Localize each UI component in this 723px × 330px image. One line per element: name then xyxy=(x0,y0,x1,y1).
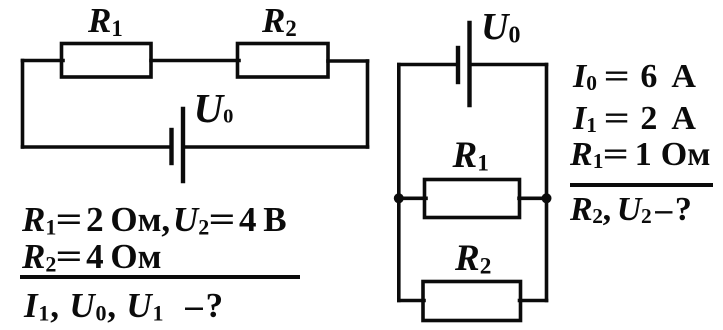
wire right vertical (left circuit) xyxy=(366,61,370,147)
battery U0 long plate (left circuit) xyxy=(181,109,185,181)
label R2 (left circuit) xyxy=(262,3,297,38)
resistor R2 (right circuit) xyxy=(423,282,521,321)
given data line 1 (right problem) xyxy=(573,60,696,94)
question line (left problem) xyxy=(24,288,224,323)
wire top segment to R1 xyxy=(23,59,64,63)
resistor R1 (right circuit) xyxy=(425,180,520,218)
wire bottom branch left xyxy=(399,299,424,303)
given data line 1 (left problem) xyxy=(22,202,287,237)
wire bottom branch right xyxy=(520,299,547,303)
given data line 2 (right problem) xyxy=(573,102,696,136)
wire bottom left (left circuit) xyxy=(23,145,170,149)
wire middle branch right xyxy=(519,197,547,201)
wire right vertical (right circuit) xyxy=(545,65,549,301)
wire bottom right (left circuit) xyxy=(185,145,368,149)
node junction dot right xyxy=(542,193,552,203)
battery U0 long plate (right circuit) xyxy=(467,23,471,105)
battery U0 short plate (left circuit) xyxy=(169,130,173,163)
wire top to battery (right circuit) xyxy=(399,63,456,67)
wire between R1 and R2 xyxy=(151,59,239,63)
given data line 3 (right problem) xyxy=(570,138,710,172)
wire left vertical (right circuit) xyxy=(397,65,401,301)
label U0 (right circuit battery) xyxy=(481,8,520,46)
resistor R2 (left circuit) xyxy=(238,44,329,78)
rule line (left problem) xyxy=(20,275,300,280)
wire middle branch left xyxy=(399,197,426,201)
wire from R2 to right xyxy=(328,59,368,63)
wire battery to top-right corner (right circuit) xyxy=(472,63,547,67)
resistor R1 (left circuit) xyxy=(62,44,152,78)
wire left vertical (left circuit) xyxy=(21,61,25,148)
label R1 (left circuit) xyxy=(88,3,123,38)
label U0 (left circuit battery) xyxy=(194,88,234,129)
node junction dot left xyxy=(394,193,404,203)
label R1 (right circuit) xyxy=(453,137,489,174)
battery U0 short plate (right circuit) xyxy=(456,48,460,82)
given data line 2 (left problem) xyxy=(22,239,161,274)
question line (right problem) xyxy=(570,193,691,227)
rule line (right problem) xyxy=(570,183,713,187)
label R2 (right circuit) xyxy=(455,240,491,277)
